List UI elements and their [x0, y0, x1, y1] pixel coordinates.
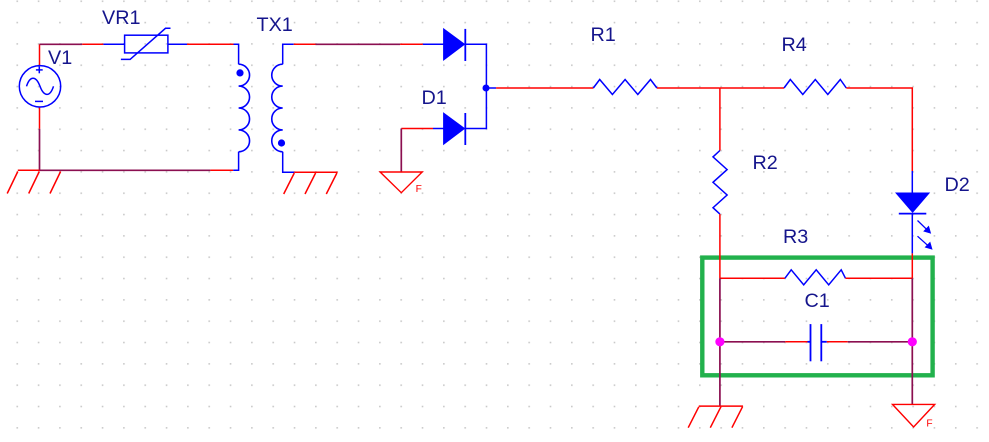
- wire TX1 primary bottom pin: [233, 152, 238, 171]
- wire secondary to D1 red segment: [294, 43, 316, 45]
- diode D1a (top): [444, 29, 466, 61]
- junction node (D1 output): [483, 85, 490, 92]
- svg-text:C1: C1: [805, 290, 830, 312]
- wire bottom rail red segment: [210, 169, 233, 171]
- wire R4 to D2 corner: [846, 88, 912, 171]
- wire secondary to D1 red segment 2: [400, 43, 423, 45]
- ground F (triangle, bottom right): [893, 404, 935, 427]
- ground (chassis, V1): [7, 170, 60, 193]
- resistor R1: [593, 80, 657, 95]
- wire R3 right red segment: [846, 277, 913, 279]
- resistor R3: [785, 270, 846, 285]
- svg-text:R2: R2: [753, 152, 778, 174]
- wire D2 cathode blue segment: [911, 214, 913, 254]
- wire VR1 left pin: [103, 43, 124, 45]
- wire secondary to D1 purple segment: [316, 43, 401, 45]
- wire R2 bottom red segment: [719, 214, 721, 278]
- LED D2 light arrows: [918, 221, 932, 249]
- node junction dot right (magenta): [908, 337, 917, 346]
- wire junction blue stub: [486, 87, 496, 89]
- wire C1 left purple segment: [720, 341, 785, 343]
- resistor R4: [784, 80, 846, 95]
- svg-text:R4: R4: [782, 34, 807, 56]
- svg-text:VR1: VR1: [102, 7, 140, 29]
- svg-text:F: F: [926, 418, 932, 429]
- wire D1 bottom anode red segment: [401, 128, 433, 130]
- voltage source V1: [19, 66, 60, 107]
- transformer TX1 primary phase dot: [236, 69, 243, 76]
- diode D1b (bottom): [444, 113, 466, 145]
- resistor R2: [713, 151, 727, 215]
- wire D2 top pin: [911, 171, 913, 193]
- wire D1 top cathode to junction: [465, 44, 486, 128]
- wire C1 right purple segment: [848, 341, 913, 343]
- wire V1 bottom purple segment: [39, 129, 41, 171]
- LED D2: [896, 193, 929, 214]
- wire TX1 primary top pin: [234, 44, 239, 64]
- capacitor C1: [808, 324, 827, 361]
- wire top row red segment: [82, 43, 103, 45]
- wire R1 to node T: [657, 87, 720, 89]
- wire VR1 right pin: [168, 43, 187, 45]
- wire D1 top anode pin: [423, 43, 444, 45]
- wire D1 anode down purple segment: [400, 129, 402, 173]
- wire D2 to R3 red segment: [911, 253, 913, 278]
- transformer TX1 secondary coil: [272, 64, 283, 152]
- wire C1 right red segment: [827, 341, 848, 343]
- highlight box (green selection rectangle): [702, 258, 932, 376]
- wire V1 top vertical: [39, 44, 41, 65]
- svg-text:D2: D2: [945, 174, 970, 196]
- wire bottom rail purple: [40, 169, 211, 171]
- wire right vertical purple (R3 to ground): [911, 278, 913, 404]
- wire TX1 secondary top pin: [283, 44, 294, 64]
- wire junction to R1: [496, 87, 593, 89]
- wire left vertical purple (R3 to ground): [719, 278, 721, 406]
- ground (chassis, TX1 secondary): [284, 172, 338, 194]
- wire top row purple segment: [40, 43, 83, 45]
- transformer TX1 secondary phase dot: [278, 139, 285, 146]
- wire TX1 secondary bottom pin: [283, 152, 295, 173]
- svg-text:F: F: [416, 184, 422, 195]
- svg-text:V1: V1: [48, 47, 72, 69]
- svg-text:D1: D1: [422, 87, 447, 109]
- wire R2 top red segment: [719, 88, 721, 151]
- ground (chassis, bottom left): [688, 406, 743, 428]
- wire C1 left red segment: [785, 341, 807, 343]
- transformer TX1 primary coil: [239, 64, 250, 152]
- wire D1 bottom anode pin: [433, 128, 444, 130]
- svg-text:R1: R1: [591, 24, 616, 46]
- svg-text:R3: R3: [783, 226, 808, 248]
- svg-text:TX1: TX1: [257, 14, 293, 36]
- wire VR1 to TX1 red segment: [187, 43, 234, 45]
- node junction dot left (magenta): [715, 337, 724, 346]
- ground F (triangle, D1): [380, 172, 422, 193]
- varistor VR1: [121, 28, 171, 59]
- wire R3 left red segment: [720, 277, 785, 279]
- wire V1 bottom red segment: [39, 107, 41, 129]
- wire node T to R4: [720, 87, 784, 89]
